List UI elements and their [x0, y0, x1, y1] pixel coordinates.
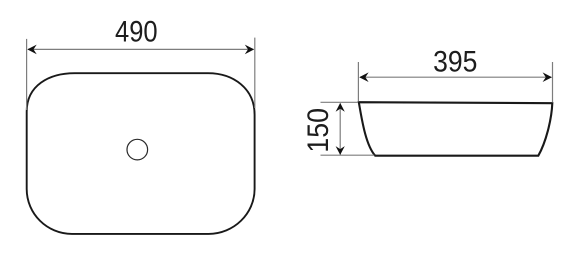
- 395 arrow right: [543, 72, 552, 82]
- basin side view outline: [359, 102, 553, 156]
- svg-text:395: 395: [433, 45, 477, 78]
- 490 extension line left: [26, 39, 28, 110]
- 490 arrow left: [27, 45, 36, 55]
- svg-text:490: 490: [115, 16, 158, 49]
- 395 dimension line: [360, 76, 551, 78]
- 150 extension line bottom: [321, 154, 375, 156]
- 150 arrow up: [336, 103, 345, 112]
- drain hole circle: [127, 139, 148, 160]
- 150 extension line top: [321, 101, 359, 103]
- basin top view outline: [27, 73, 255, 234]
- 395 extension line right: [552, 62, 554, 103]
- 150 arrow down: [336, 146, 345, 155]
- svg-text:150: 150: [302, 108, 335, 153]
- 490 dimension line: [28, 48, 254, 50]
- 490 arrow right: [245, 45, 254, 55]
- 395 extension line left: [357, 62, 359, 102]
- 490 extension line right: [254, 38, 256, 108]
- 395 arrow left: [359, 72, 368, 82]
- 150 dimension line: [339, 104, 341, 155]
